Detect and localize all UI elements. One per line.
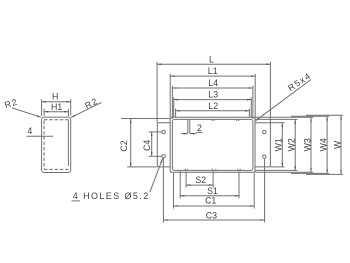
body inner outline — [172, 119, 253, 170]
dimension H — [42, 91, 71, 116]
slot width dimension 2 — [181, 119, 203, 133]
dimension C2 — [119, 119, 170, 167]
svg-text:H: H — [52, 91, 58, 101]
dimension W4 — [319, 116, 329, 173]
wall thickness label 4 — [26, 126, 53, 136]
svg-text:C2: C2 — [119, 140, 129, 151]
dimension C4 — [142, 132, 161, 156]
dimension W2 — [287, 119, 297, 170]
svg-text:H1: H1 — [51, 102, 62, 112]
svg-text:W2: W2 — [287, 138, 297, 151]
left mounting ear outline — [157, 123, 170, 167]
svg-text:W3: W3 — [303, 138, 313, 151]
svg-text:C1: C1 — [205, 196, 216, 206]
svg-text:4: 4 — [27, 126, 32, 136]
holes note 4 HOLES 05.2 — [72, 159, 163, 201]
svg-text:4 HOLES Ø5.2: 4 HOLES Ø5.2 — [73, 191, 150, 201]
left view inner dashed bottom edge — [44, 168, 69, 170]
dimension L3 — [174, 90, 252, 117]
svg-text:L4: L4 — [208, 78, 218, 88]
dimension L4 — [172, 78, 253, 119]
radius callout R5x4 — [256, 70, 313, 120]
svg-text:W: W — [332, 140, 342, 149]
dimension W3 — [303, 117, 313, 172]
svg-text:C4: C4 — [142, 140, 152, 151]
top edge slot ticks — [212, 119, 239, 121]
dimension W — [332, 115, 342, 174]
left view outer outline — [42, 117, 71, 172]
svg-text:C3: C3 — [206, 210, 217, 220]
dimension C3 — [163, 158, 264, 222]
left view inner right wall line — [67, 120, 69, 166]
svg-text:L2: L2 — [208, 101, 218, 111]
radius callout R2 right — [71, 96, 102, 118]
dimension S2 — [186, 171, 213, 187]
svg-text:S2: S2 — [195, 175, 206, 185]
dimension L2 — [176, 101, 250, 117]
svg-text:2: 2 — [197, 123, 202, 133]
svg-text:L3: L3 — [208, 90, 218, 100]
dimension C1 — [174, 173, 255, 208]
svg-text:R2: R2 — [83, 96, 100, 111]
dimension L1 — [170, 66, 255, 117]
svg-text:W4: W4 — [319, 138, 329, 151]
body outer outline — [170, 117, 255, 172]
dimension H1 — [44, 102, 68, 116]
dimension S1 — [180, 171, 239, 198]
left view inner dashed top edge — [44, 119, 69, 121]
dimension L — [157, 54, 270, 122]
dimension W1 — [273, 123, 283, 167]
hole upper left — [162, 130, 165, 133]
svg-text:R5x4: R5x4 — [286, 70, 313, 93]
bottom edge slot ticks — [185, 169, 240, 171]
svg-text:W1: W1 — [273, 138, 283, 151]
radius callout R2 left — [3, 97, 41, 118]
left view inner dashed left edge — [43, 121, 45, 170]
W extension lines right — [255, 115, 343, 174]
hole upper right — [263, 131, 266, 134]
hole lower right — [263, 155, 266, 158]
right mounting ear outline — [255, 123, 270, 167]
hole lower left — [162, 155, 165, 158]
svg-text:L: L — [209, 54, 214, 64]
svg-text:L1: L1 — [208, 66, 218, 76]
svg-text:R2: R2 — [3, 97, 19, 110]
